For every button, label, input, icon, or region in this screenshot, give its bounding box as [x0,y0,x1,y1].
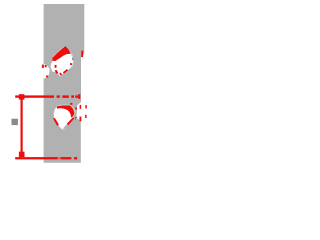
bracket top handle [19,94,25,99]
bracket bottom handle [19,152,25,158]
right dash f [85,115,87,118]
top line end mark tall [78,94,80,99]
small gray square handle [12,119,18,125]
red dash at band step [81,51,83,58]
cyan rim top blob upper-left edge [53,46,65,57]
right dash b [75,117,77,120]
red crescent on middle blob [57,105,75,117]
right dash d [80,117,82,122]
gray corridor band [44,4,85,163]
right dash a [75,107,77,109]
cyan speck band corner [76,118,78,120]
top lake white blob [51,50,74,77]
red fleck on blob interior left [55,65,57,68]
lower-right streak middle blob [67,117,75,125]
red fleck on band left edge [42,65,44,68]
streak near bottom tip [59,73,62,76]
left white notch in band [44,64,50,78]
middle lake white blob [54,105,75,129]
bracket top line solid [15,95,54,97]
bottom line dash 2 [74,157,77,159]
red fleck inside notch [45,65,47,67]
fleck right lower top blob [70,63,72,65]
lower-left streak middle blob [53,118,59,126]
fleck below top line [70,103,72,105]
red cap on top blob [52,46,71,61]
streak left of V notch [55,70,59,74]
top line dash 1 [57,95,60,97]
bottom line dash 1 [61,157,72,159]
top line dash 3 [71,95,74,97]
right dash c [80,105,82,109]
cyan speck below middle blob tip [63,128,65,129]
cyan rim middle blob crescent [56,105,75,113]
diagonal streak bottom right of top blob [63,69,68,74]
fleck right edge top blob [72,57,74,60]
top line dash 2 [62,95,69,97]
bracket bottom line solid [15,157,58,159]
cyan rim top blob right edge [71,53,74,67]
top line dash 4 [75,95,78,97]
bracket bottom line dim segment [58,157,61,159]
red fleck notch bottom [46,75,49,78]
bracket vertical line [21,98,23,152]
right dash e [85,105,87,108]
